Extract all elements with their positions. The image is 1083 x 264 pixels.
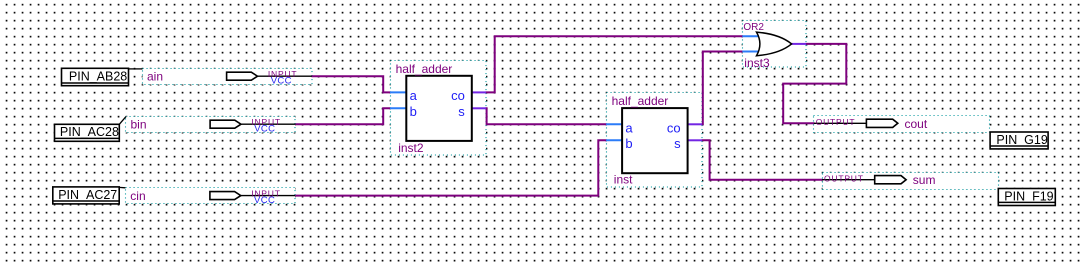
- inst2 output stub co: [471, 91, 486, 93]
- svg-text:b: b: [625, 136, 632, 151]
- pin location box PIN_G19: [990, 132, 1048, 149]
- wire ain to half adder inst2 port a: [312, 76, 391, 92]
- svg-text:inst3: inst3: [744, 56, 770, 70]
- inst2 body: [406, 76, 472, 141]
- half adder U2 inst bounding box: [607, 93, 703, 188]
- PIN_G19 underline: [991, 145, 1048, 147]
- pin location box PIN_F19: [998, 189, 1055, 206]
- svg-text:VCC: VCC: [254, 124, 275, 135]
- PIN_AB28 box: [62, 68, 129, 85]
- output pin element cout bounding box: [814, 116, 990, 133]
- svg-text:a: a: [410, 88, 418, 103]
- cout pentagon flag: [866, 119, 897, 127]
- cin pentagon flag: [210, 192, 241, 200]
- svg-text:PIN_AC28: PIN_AC28: [60, 125, 119, 139]
- input port symbol bin with INPUT VCC: [131, 117, 296, 135]
- output port symbol cout with OUTPUT: [814, 117, 928, 131]
- inst3 output stub: [791, 43, 806, 45]
- output port symbol sum with OUTPUT: [822, 173, 935, 187]
- pin location box PIN_AC27: [53, 187, 126, 204]
- wire cin to half adder inst port b: [295, 140, 606, 195]
- pin location box PIN_AC28: [55, 117, 127, 142]
- svg-text:s: s: [674, 136, 681, 151]
- svg-text:co: co: [667, 120, 681, 135]
- ain pentagon flag: [227, 72, 258, 80]
- svg-text:b: b: [410, 104, 417, 119]
- half adder U1 inst2 bounding box: [391, 61, 487, 156]
- PIN_AC28 box: [55, 124, 120, 141]
- PIN_AC28 leader line: [119, 117, 126, 125]
- inst3 OR2 gate body: [757, 32, 792, 56]
- input port symbol ain with INPUT VCC: [147, 69, 312, 87]
- sum pentagon flag: [875, 176, 906, 184]
- svg-text:bin: bin: [131, 118, 147, 132]
- PIN_AC27 leader line: [119, 186, 125, 188]
- wire half adder inst co to or gate input 2: [702, 52, 743, 125]
- svg-text:PIN_AB28: PIN_AB28: [69, 69, 127, 83]
- svg-text:OR2: OR2: [743, 22, 764, 33]
- cin lead line: [241, 195, 295, 197]
- or gate U3 inst3 symbol OR2: [742, 22, 806, 70]
- svg-text:cout: cout: [905, 117, 928, 131]
- PIN_G19 box: [990, 132, 1048, 149]
- svg-text:co: co: [451, 88, 465, 103]
- half adder U2 inst symbol: [606, 94, 702, 187]
- PIN_AB28 underline: [62, 82, 128, 84]
- wire half adder inst2 co to or gate input 1: [486, 36, 743, 92]
- svg-text:VCC: VCC: [271, 76, 292, 87]
- svg-text:sum: sum: [913, 173, 936, 187]
- bin lead line: [241, 123, 295, 125]
- svg-text:ain: ain: [147, 70, 163, 84]
- input pin element cin bounding box: [126, 188, 296, 204]
- input pin element ain bounding box: [143, 69, 313, 85]
- svg-text:OUTPUT: OUTPUT: [824, 174, 864, 184]
- wire half adder inst2 s to half adder inst port a: [486, 108, 607, 124]
- inst input stub a: [606, 123, 622, 125]
- input port symbol cin with INPUT VCC: [130, 189, 295, 207]
- PIN_AB28 leader line: [129, 68, 143, 70]
- inst input stub b: [606, 139, 622, 141]
- inst3 input stub 1: [742, 35, 760, 37]
- PIN_AC28 underline: [55, 137, 119, 139]
- inst2 output stub s: [471, 107, 486, 109]
- inst body: [622, 108, 688, 173]
- svg-text:half_adder: half_adder: [612, 94, 669, 108]
- wire half adder inst s to sum output: [702, 140, 823, 179]
- half adder U1 inst2 symbol: [390, 62, 486, 155]
- svg-text:inst2: inst2: [398, 141, 424, 155]
- svg-text:inst: inst: [614, 173, 633, 187]
- pin location box PIN_AB28: [62, 68, 143, 85]
- output pin element sum bounding box: [823, 173, 999, 190]
- PIN_AC27 box: [53, 187, 119, 204]
- or gate U3 inst3 bounding box: [743, 21, 807, 68]
- PIN_F19 underline: [999, 201, 1055, 203]
- inst2 input stub a: [390, 91, 406, 93]
- wire bin to half adder inst2 port b: [295, 108, 390, 124]
- inst3 input stub 2: [742, 51, 760, 53]
- svg-text:s: s: [458, 104, 465, 119]
- PIN_AC27 underline: [53, 200, 118, 202]
- inst output stub co: [687, 123, 702, 125]
- svg-text:PIN_F19: PIN_F19: [1004, 189, 1053, 203]
- svg-text:VCC: VCC: [254, 195, 275, 206]
- input pin element bin bounding box: [126, 117, 296, 133]
- PIN_F19 box: [998, 189, 1055, 206]
- sum lead line: [822, 179, 875, 181]
- ain lead line: [258, 75, 312, 77]
- svg-text:a: a: [625, 120, 633, 135]
- svg-text:OUTPUT: OUTPUT: [816, 117, 856, 127]
- inst2 input stub b: [390, 107, 406, 109]
- bin pentagon flag: [210, 120, 241, 128]
- cout lead line: [814, 122, 867, 124]
- inst output stub s: [687, 139, 702, 141]
- wire or gate output to cout output: [783, 44, 846, 123]
- svg-text:half_adder: half_adder: [396, 62, 453, 76]
- svg-text:PIN_G19: PIN_G19: [996, 133, 1047, 147]
- svg-text:PIN_AC27: PIN_AC27: [58, 188, 117, 202]
- svg-text:cin: cin: [130, 189, 145, 203]
